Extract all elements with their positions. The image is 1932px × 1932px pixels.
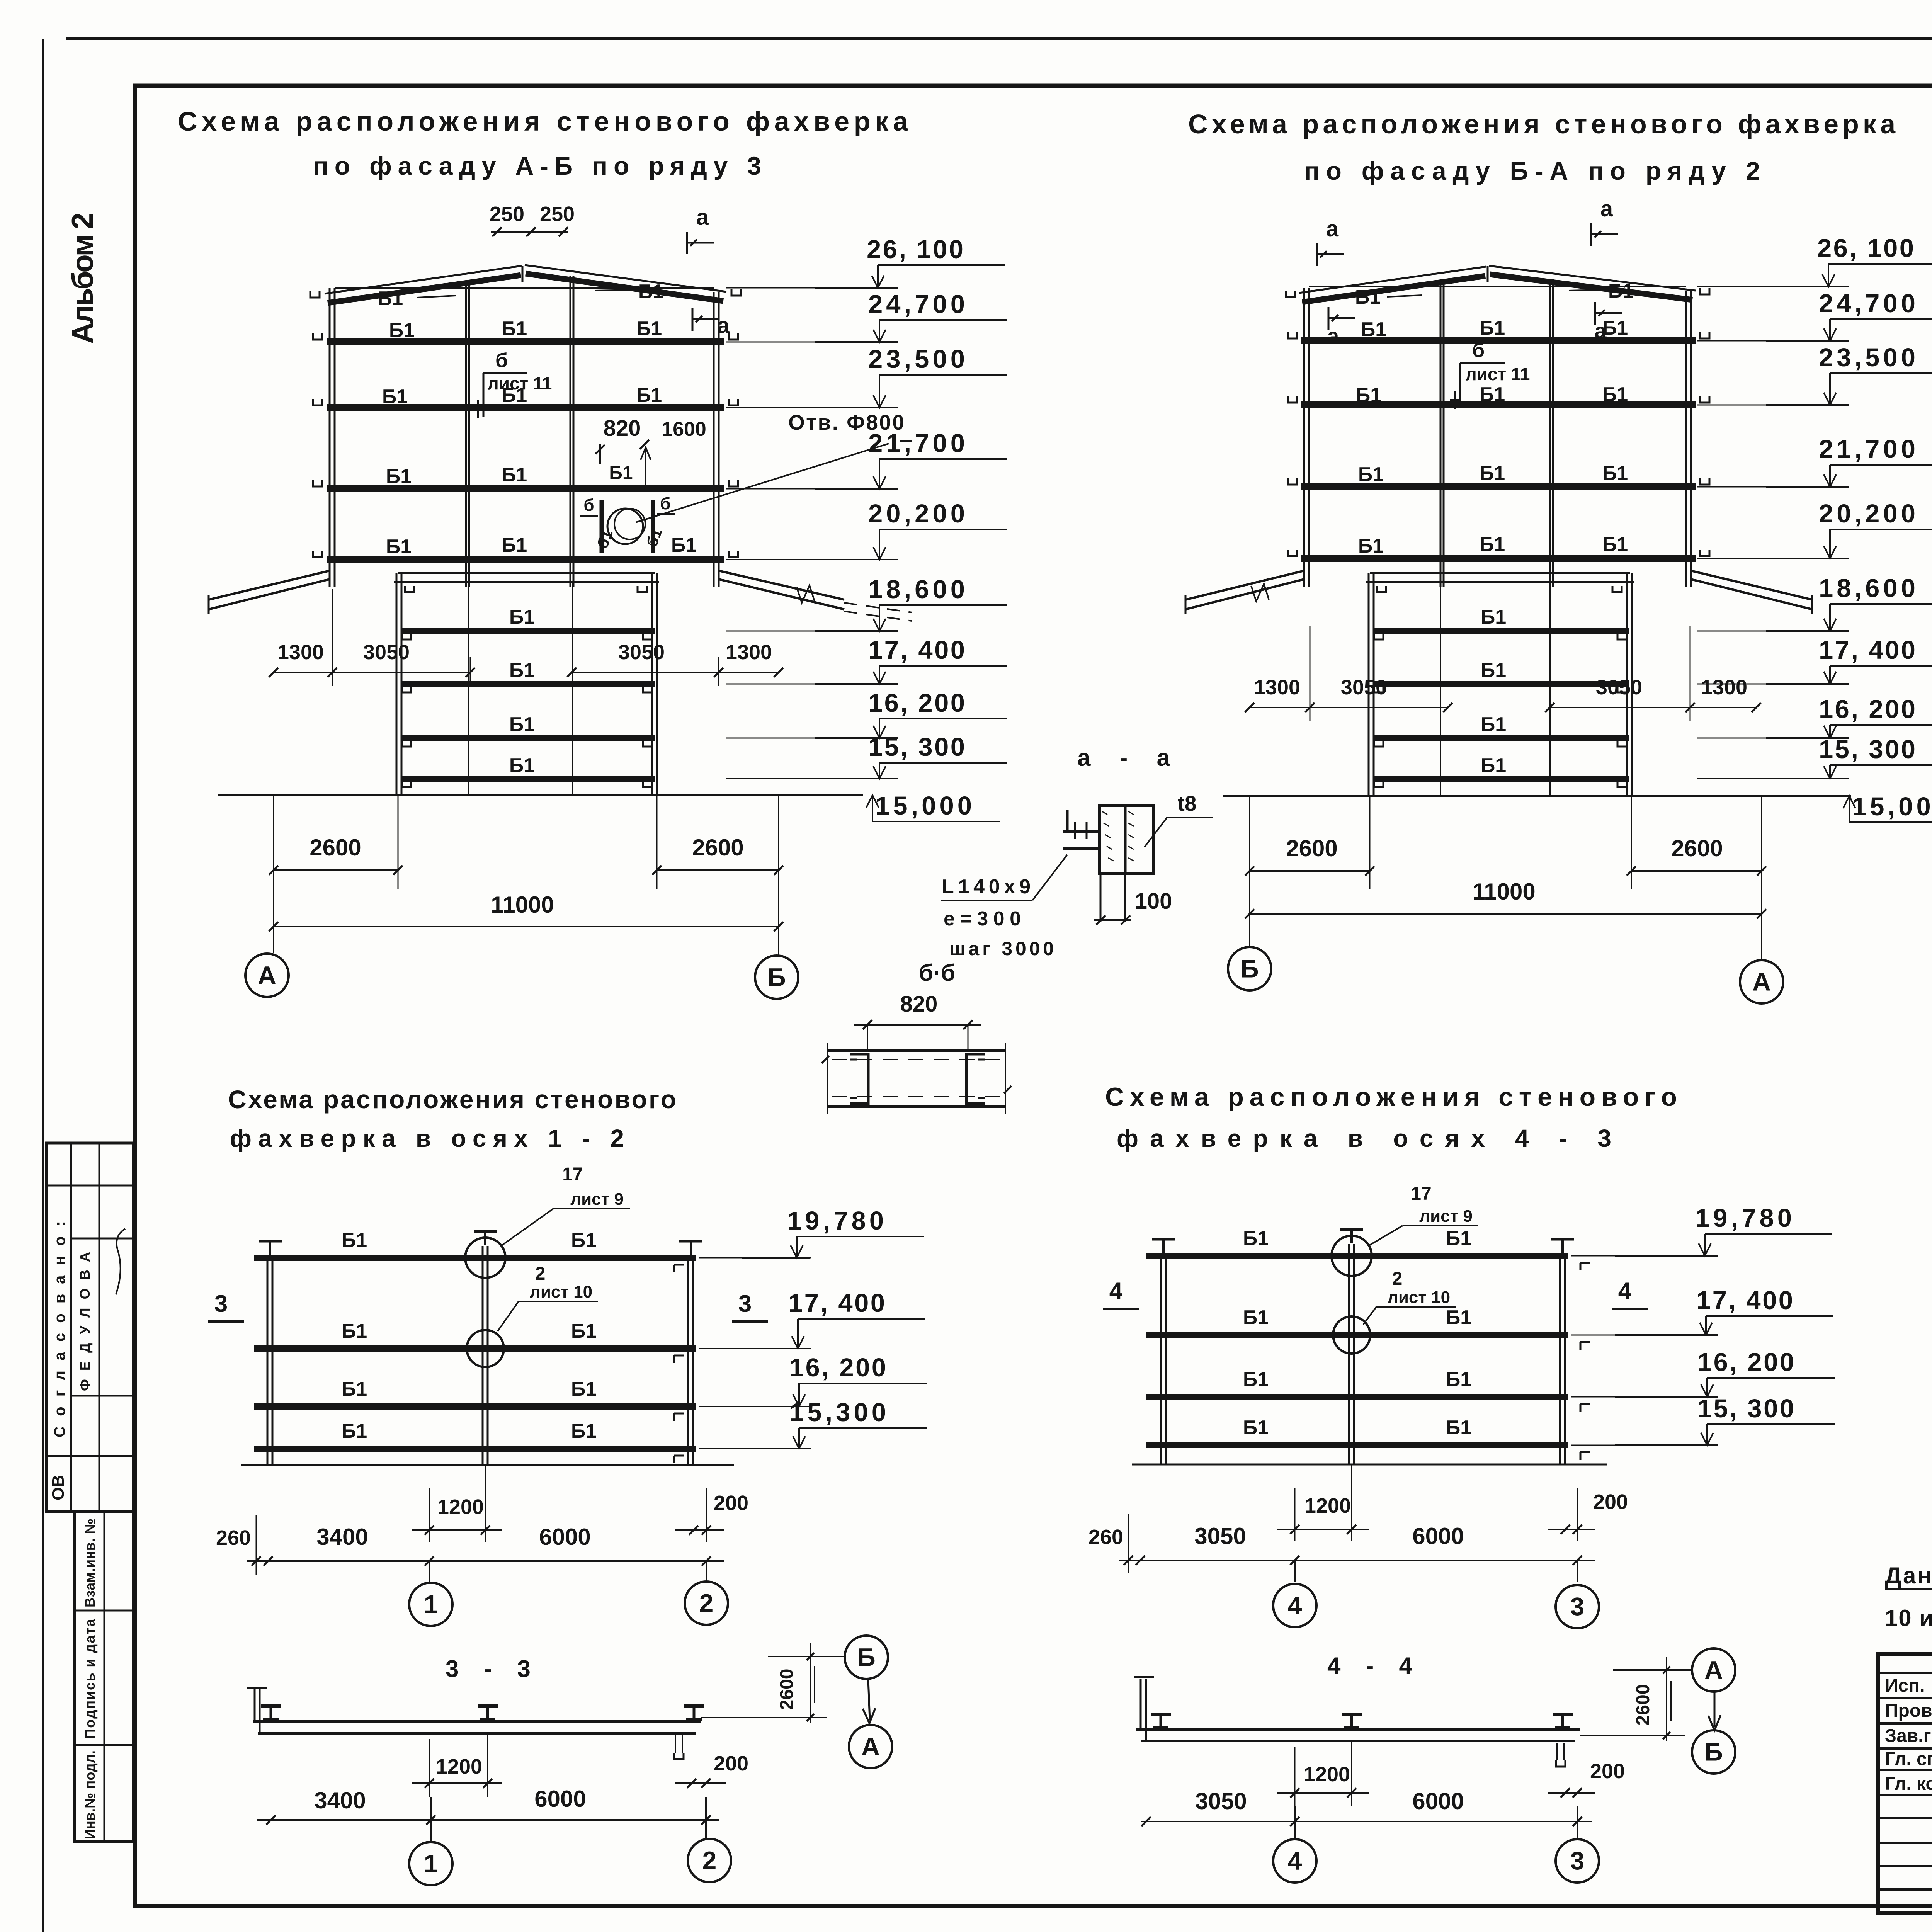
svg-text:Б1: Б1 <box>509 713 535 736</box>
svg-text:Б1: Б1 <box>509 606 535 628</box>
svg-text:4: 4 <box>1288 1846 1302 1875</box>
svg-text:6000: 6000 <box>1412 1523 1464 1549</box>
elevation2 silo right column <box>1626 573 1628 796</box>
svg-text:Б: Б <box>857 1643 875 1671</box>
svg-text:6000: 6000 <box>1412 1788 1464 1814</box>
svg-text:a: a <box>1595 319 1607 343</box>
schema 4-3 left column <box>1160 1254 1162 1464</box>
svg-text:Б1: Б1 <box>342 1378 367 1400</box>
schema 4-3 level extensions <box>1571 1255 1685 1257</box>
section 3-3 axis extensions <box>430 1797 432 1842</box>
schema 4-3 main dim line 260/3050/6000 <box>1119 1560 1595 1561</box>
schema 4-3 girt beam Б1 level 3615 <box>1146 1394 1568 1400</box>
svg-text:Б1: Б1 <box>609 463 633 483</box>
left skirt break mark (elevation2) <box>1251 584 1269 601</box>
right skirt break mark <box>797 585 815 603</box>
elevation2 silo beam Б1 level 1770 <box>1373 681 1629 687</box>
svg-text:15,000: 15,000 <box>1852 792 1932 821</box>
elevation2 level extension lines <box>1697 286 1839 287</box>
axis bubble 4 (section 4-4) <box>1273 1839 1316 1883</box>
silo column extension lines <box>398 795 399 889</box>
svg-text:260: 260 <box>1088 1526 1123 1549</box>
svg-text:Б1: Б1 <box>378 287 403 310</box>
orientation arrow Б to А (3-3) <box>868 1680 870 1720</box>
svg-text:3: 3 <box>214 1291 228 1317</box>
schema 4-3 right column <box>1559 1254 1561 1464</box>
svg-text:1200: 1200 <box>436 1755 482 1778</box>
svg-text:3 - 3: 3 - 3 <box>446 1656 531 1682</box>
svg-text:2600: 2600 <box>692 835 743 861</box>
silo column extension lines (elevation2) <box>1369 796 1371 889</box>
elevation1 girt beam Б1 level 1055 <box>327 404 724 411</box>
wall line to А marker (4-4) <box>1613 1669 1692 1671</box>
svg-text:Б1: Б1 <box>1243 1227 1269 1250</box>
elevation2 roof chords <box>1299 267 1486 293</box>
axis bubble 3 (section 4-4) <box>1556 1839 1599 1883</box>
svg-text:Б1: Б1 <box>1361 318 1386 341</box>
svg-text:3: 3 <box>738 1291 752 1317</box>
svg-text:1300: 1300 <box>277 641 324 664</box>
schema 1-2 girt beam Б1 level 3255 <box>254 1255 696 1261</box>
hole circle Ф800 <box>607 509 643 544</box>
schema 4-3 girt beam Б1 level 3740 <box>1146 1442 1568 1448</box>
callout circle 17/лист9 (schema 4-3) <box>1332 1236 1372 1276</box>
svg-text:3050: 3050 <box>1195 1788 1247 1814</box>
schema 4-3 bracket marks on right column <box>1580 1262 1590 1264</box>
svg-text:Б1: Б1 <box>571 1229 597 1252</box>
svg-text:200: 200 <box>1590 1760 1625 1783</box>
elevation2 silo centerline posts <box>1440 582 1441 796</box>
svg-text:Б1: Б1 <box>636 384 662 406</box>
elevation2 top tie line <box>1309 286 1686 287</box>
svg-text:Схема расположения стенового: Схема расположения стенового <box>228 1085 676 1114</box>
elevation2 left column <box>1303 288 1305 587</box>
elevation1 eave flare left skirt <box>209 571 330 600</box>
svg-text:Б1: Б1 <box>502 534 527 556</box>
svg-text:Б1: Б1 <box>571 1320 597 1342</box>
elevation1 girt beam Б1 level 1265 <box>327 485 724 492</box>
svg-text:260: 260 <box>216 1526 251 1549</box>
elevation1 girt beam Б1 level 885 <box>327 338 724 345</box>
svg-text:Б1: Б1 <box>389 319 415 342</box>
schema 1-2 girt beam Б1 level 3749 <box>254 1446 696 1452</box>
elevation2 silo left column <box>1368 573 1370 796</box>
svg-text:Зав.гр.: Зав.гр. <box>1885 1726 1932 1746</box>
svg-text:Исп.: Исп. <box>1885 1675 1925 1696</box>
callout circle 17/лист9 (schema 1-2) <box>465 1238 505 1278</box>
elevation1 beam end marks level 1448 <box>313 551 322 557</box>
axis bubble А (4-4 marker) <box>1692 1648 1735 1692</box>
section 3-3 beam <box>253 1720 701 1723</box>
hole side bars with б marks <box>600 500 604 553</box>
svg-text:3400: 3400 <box>316 1524 368 1550</box>
svg-text:лист 11: лист 11 <box>1465 364 1530 384</box>
elevation1 beam end marks level 1265 <box>313 480 322 486</box>
svg-text:t8: t8 <box>1178 791 1197 815</box>
svg-text:2600: 2600 <box>1633 1684 1653 1726</box>
elevation2 silo beam Б1 level 2015 <box>1373 776 1629 782</box>
dim 2600 vertical (3-3) <box>810 1643 811 1723</box>
svg-text:Б1: Б1 <box>1446 1417 1471 1439</box>
svg-text:Альбом 2: Альбом 2 <box>65 213 99 344</box>
svg-text:А: А <box>1752 967 1771 996</box>
svg-text:Б1: Б1 <box>1446 1306 1471 1329</box>
svg-text:1300: 1300 <box>1254 676 1300 699</box>
svg-text:Б1: Б1 <box>509 659 535 682</box>
svg-text:лист 10: лист 10 <box>530 1282 592 1301</box>
svg-text:Б1: Б1 <box>638 281 664 303</box>
section mark a (inner right, elevation1) <box>692 308 694 331</box>
elevation1 interior post left <box>465 284 467 587</box>
a-a hatch marks <box>1102 811 1107 815</box>
svg-text:4: 4 <box>1618 1278 1632 1304</box>
fachwerk dim row 1300/3050 (elevation1) <box>274 672 470 673</box>
outer sheet border <box>42 39 44 1932</box>
schema 1-2 ground line <box>241 1464 734 1466</box>
elevation1 interior post right <box>570 276 571 587</box>
axis bubble 2 (section 3-3) <box>688 1839 731 1882</box>
elevation2 interior posts <box>1440 282 1442 587</box>
svg-text:Взам.инв. №: Взам.инв. № <box>82 1519 98 1607</box>
elevation1 top tie line <box>335 287 714 289</box>
svg-text:Б: Б <box>1704 1737 1723 1766</box>
svg-text:Б1: Б1 <box>636 318 662 340</box>
schema 4-3 axis extensions <box>1294 1560 1296 1582</box>
svg-text:Б1: Б1 <box>1358 463 1384 486</box>
svg-text:Данный лист см. совместно с ли: Данный лист см. совместно с листами <box>1885 1563 1932 1588</box>
beam line extension (3-3) <box>701 1717 827 1718</box>
approval stamp table (Согласовано) <box>46 1143 133 1512</box>
dim row 2600 right (elevation1) <box>657 869 779 871</box>
elevation1 beam end marks level 885 <box>313 333 322 340</box>
svg-text:б·б: б·б <box>919 960 955 986</box>
ground line elevation1 <box>218 794 863 796</box>
elevation1 silo left column <box>396 573 398 795</box>
elevation1 silo right column <box>651 573 653 795</box>
svg-text:250: 250 <box>490 202 524 226</box>
svg-text:3050: 3050 <box>1194 1523 1246 1549</box>
svg-text:3: 3 <box>1570 1846 1585 1875</box>
elevation2 right column <box>1685 291 1687 587</box>
svg-text:Б1: Б1 <box>1243 1368 1269 1391</box>
elevation1 right column <box>713 292 715 587</box>
svg-text:Б: Б <box>767 963 786 991</box>
elevation2 silo beam Б1 level 1633 <box>1373 628 1629 634</box>
svg-text:Б1: Б1 <box>1243 1417 1269 1439</box>
signature squiggle <box>116 1229 125 1294</box>
svg-text:2: 2 <box>1392 1269 1403 1289</box>
svg-text:Б1: Б1 <box>509 754 535 777</box>
axis bubble Б (elevation1) <box>755 956 798 999</box>
svg-text:Инв.№ подл.: Инв.№ подл. <box>82 1750 98 1839</box>
svg-text:a: a <box>717 313 730 338</box>
svg-text:3050: 3050 <box>1341 676 1387 699</box>
elevation1 eave flare right skirt <box>719 571 844 600</box>
axis bubble 4 (schema 4-3) <box>1273 1584 1316 1627</box>
section 4-4 beam <box>1136 1728 1580 1731</box>
svg-text:Б1: Б1 <box>1481 713 1506 736</box>
axis A extension line (elevation1) <box>273 795 274 953</box>
svg-text:2600: 2600 <box>310 835 361 861</box>
elevation2 silo beam Б1 level 1910 <box>1373 735 1629 741</box>
б-б channel body <box>828 1049 1005 1052</box>
svg-text:б: б <box>660 494 670 513</box>
svg-text:А: А <box>1704 1655 1723 1684</box>
elevation1 silo beam Б1 level 1770 <box>401 681 655 687</box>
svg-text:Б1: Б1 <box>1356 384 1381 406</box>
elevation1 left column <box>329 288 331 587</box>
svg-text:Б1: Б1 <box>1355 286 1381 308</box>
svg-text:Б1: Б1 <box>1608 280 1634 302</box>
б-б right C-channel <box>966 1054 985 1104</box>
svg-text:6000: 6000 <box>539 1524 590 1550</box>
svg-text:б: б <box>583 496 594 515</box>
document stamp column (Взам.инв / Подпись / Инв.№) <box>75 1512 133 1842</box>
svg-text:Б1: Б1 <box>571 1420 597 1442</box>
elevation2 beam end marks level 882 <box>1288 332 1297 338</box>
elevation2 beam end marks level 1445 <box>1288 550 1297 556</box>
б-б left C-channel <box>850 1054 868 1104</box>
elevation1 silo beam Б1 level 1910 <box>401 735 655 741</box>
schema 1-2 axis extensions <box>429 1561 430 1582</box>
svg-text:Б1: Б1 <box>1602 383 1628 406</box>
svg-text:1200: 1200 <box>1304 1763 1350 1786</box>
svg-text:Б1: Б1 <box>1602 462 1628 485</box>
axis bubble А (elevation2) <box>1740 960 1783 1003</box>
a-a column box <box>1099 806 1154 873</box>
б-б end break marks <box>827 1043 828 1114</box>
svg-text:Б1: Б1 <box>1243 1306 1269 1329</box>
svg-text:Подпись и дата: Подпись и дата <box>82 1619 98 1739</box>
svg-text:2600: 2600 <box>777 1669 797 1710</box>
elevation1 beam end marks level 1055 <box>313 399 322 405</box>
schema 1-2 girt beam Б1 level 3490 <box>254 1345 696 1352</box>
elevation2 eave flare right skirt <box>1691 571 1812 600</box>
elevation1 silo beam Б1 level 1633 <box>401 628 655 634</box>
wall line to Б marker (3-3) <box>768 1656 844 1657</box>
svg-text:1200: 1200 <box>437 1495 484 1519</box>
svg-text:Гл. сп.: Гл. сп. <box>1885 1749 1932 1769</box>
schema 4-3 middle column <box>1348 1244 1350 1464</box>
section mark a (inner-right, elevation2) <box>1594 302 1596 325</box>
svg-text:А: А <box>258 961 276 989</box>
svg-text:4: 4 <box>1288 1591 1302 1619</box>
elevation2 silo top plate <box>1370 572 1630 574</box>
section 4-4 left upright <box>1140 1679 1142 1730</box>
elevation1 girt beam Б1 level 1448 <box>327 556 724 563</box>
svg-text:820: 820 <box>604 416 641 441</box>
svg-text:200: 200 <box>714 1752 748 1775</box>
axis bubble 1 (schema 1-2) <box>409 1583 452 1626</box>
elevation2 girt beam Б1 level 882 <box>1301 337 1696 344</box>
svg-text:Б1: Б1 <box>342 1320 367 1342</box>
svg-text:Б1: Б1 <box>342 1229 367 1252</box>
svg-text:Б1: Б1 <box>1602 533 1628 556</box>
svg-text:2600: 2600 <box>1286 835 1337 861</box>
elevation2 roof eave ticks <box>1286 291 1295 297</box>
svg-text:Б1: Б1 <box>1358 535 1384 557</box>
svg-text:200: 200 <box>1593 1490 1628 1514</box>
svg-text:11000: 11000 <box>491 892 554 918</box>
svg-text:2600: 2600 <box>1671 835 1723 861</box>
svg-text:3400: 3400 <box>314 1787 366 1813</box>
callout circle 2/лист10 (schema 1-2) <box>467 1330 504 1367</box>
section 3-3 column symbols <box>261 1704 281 1708</box>
svg-text:Б1: Б1 <box>342 1420 367 1442</box>
axis Б extension line (elevation2) <box>1249 796 1250 947</box>
section 4-4 column symbols <box>1151 1713 1171 1716</box>
svg-text:2: 2 <box>699 1588 714 1617</box>
fachwerk dim row 3050/1300 (elevation2) <box>1250 707 1448 708</box>
svg-text:лист 11: лист 11 <box>487 373 552 393</box>
svg-text:б: б <box>1472 339 1485 362</box>
svg-text:лист 9: лист 9 <box>1419 1207 1473 1226</box>
elevation1 roof chords <box>325 266 522 294</box>
svg-text:Б1: Б1 <box>502 464 527 486</box>
svg-text:200: 200 <box>714 1492 748 1515</box>
elevation1 level extension lines <box>726 287 896 289</box>
axis bubble Б (elevation2) <box>1228 947 1271 990</box>
svg-text:Б1: Б1 <box>1446 1368 1471 1391</box>
svg-text:3: 3 <box>1570 1592 1585 1621</box>
schema 1-2 level extensions <box>699 1257 811 1259</box>
svg-text:Б1: Б1 <box>671 534 697 556</box>
axis bubble А (3-3 marker) <box>849 1725 892 1768</box>
svg-text:Б1: Б1 <box>502 318 527 340</box>
elevation2 girt beam Б1 level 1260 <box>1301 483 1696 490</box>
svg-text:А: А <box>861 1732 880 1760</box>
elevation1 silo top plate <box>398 572 655 574</box>
svg-text:Б1: Б1 <box>1480 462 1505 485</box>
axis bubble Б (4-4 marker) <box>1692 1730 1735 1774</box>
svg-text:Б1: Б1 <box>1480 533 1505 556</box>
names table rows <box>1878 1672 1932 1674</box>
section 4-4 right lower ticks <box>1556 1743 1558 1760</box>
svg-text:11000: 11000 <box>1472 879 1536 905</box>
svg-text:Пров.: Пров. <box>1885 1701 1932 1721</box>
axis bubble 3 (schema 4-3) <box>1556 1585 1599 1628</box>
section mark a (inner-left, elevation2) <box>1328 307 1330 330</box>
axis bubble Б (3-3 marker) <box>845 1636 888 1679</box>
svg-text:4: 4 <box>1109 1278 1123 1304</box>
svg-text:10 и 11.: 10 и 11. <box>1885 1605 1932 1631</box>
svg-text:лист 10: лист 10 <box>1388 1288 1450 1307</box>
a-a angle bracket <box>1066 810 1069 831</box>
schema 1-2 middle column (axis 1 +1200) <box>482 1246 484 1465</box>
right skirt dashed continuation <box>844 603 912 612</box>
svg-text:ОВ: ОВ <box>49 1475 68 1500</box>
dim row 2600 right (elevation2) <box>1631 870 1762 872</box>
axis А extension line (elevation2) <box>1761 796 1762 961</box>
section 4-4 axis extensions <box>1294 1806 1296 1839</box>
svg-text:1300: 1300 <box>1701 676 1747 699</box>
section 3-3 dim line 3400/6000 <box>257 1819 719 1821</box>
svg-text:Б1: Б1 <box>386 465 412 488</box>
svg-text:б: б <box>495 349 508 372</box>
svg-text:Б1: Б1 <box>571 1378 597 1400</box>
elevation2 girt beam Б1 level 1048 <box>1301 401 1696 408</box>
svg-text:Б1: Б1 <box>382 386 408 408</box>
svg-text:820: 820 <box>900 992 938 1017</box>
axis bubble 1 (section 3-3) <box>409 1842 452 1885</box>
svg-text:2: 2 <box>702 1846 717 1874</box>
elevation2 beam end marks level 1048 <box>1288 396 1297 403</box>
elevation1 roof eave ticks <box>310 291 320 298</box>
svg-text:a: a <box>1326 216 1339 241</box>
title block outer box <box>1878 1654 1932 1913</box>
section 3-3 left upright <box>254 1689 256 1721</box>
axis Б extension line (elevation1) <box>778 795 779 955</box>
schema 4-3 girt beam Б1 level 3455 <box>1146 1332 1568 1338</box>
svg-text:3050: 3050 <box>1596 676 1642 699</box>
svg-text:1200: 1200 <box>1304 1494 1351 1517</box>
svg-text:4 - 4: 4 - 4 <box>1327 1653 1413 1679</box>
axis bubble А (elevation1) <box>245 954 289 997</box>
svg-text:17: 17 <box>1411 1184 1431 1204</box>
svg-text:17: 17 <box>562 1164 583 1185</box>
dim row 11000 (elevation2) <box>1250 913 1762 915</box>
svg-text:100: 100 <box>1135 889 1172 914</box>
a-a column below <box>1100 873 1102 922</box>
svg-text:Б1: Б1 <box>1481 659 1506 682</box>
svg-text:3050: 3050 <box>363 641 410 664</box>
svg-text:Б1: Б1 <box>1480 317 1505 339</box>
schema 1-2 girt beam Б1 level 3640 <box>254 1403 696 1410</box>
callout circle 2/лист10 (schema 4-3) <box>1333 1316 1370 1354</box>
svg-text:шаг 3000: шаг 3000 <box>949 938 1054 959</box>
svg-text:Б1: Б1 <box>1446 1227 1471 1250</box>
schema 1-2 left column <box>267 1256 269 1465</box>
schema 4-3 ground line <box>1132 1464 1607 1466</box>
elevation1 silo centerline posts <box>468 582 469 795</box>
schema 1-2 bracket marks on right column <box>674 1264 684 1266</box>
dim row 11000 (elevation1) <box>274 926 779 927</box>
svg-text:Б1: Б1 <box>1481 606 1506 628</box>
svg-text:Б: Б <box>1240 954 1259 983</box>
section 3-3 right lower ticks <box>675 1735 676 1753</box>
svg-text:Б1: Б1 <box>386 536 412 558</box>
svg-text:лист 9: лист 9 <box>570 1190 624 1209</box>
svg-text:1300: 1300 <box>726 641 772 664</box>
schema 4-3 girt beam Б1 level 3250 <box>1146 1253 1568 1259</box>
schema 1-2 right column (axis 2 -200) <box>687 1256 689 1465</box>
svg-text:1600: 1600 <box>662 418 706 440</box>
axis bubble 2 (schema 1-2) <box>685 1582 728 1625</box>
elevation2 girt beam Б1 level 1445 <box>1301 555 1696 562</box>
svg-text:a: a <box>696 205 709 230</box>
svg-text:1: 1 <box>424 1590 438 1618</box>
svg-text:Б1: Б1 <box>1480 383 1505 406</box>
elevation1 silo beam Б1 level 2015 <box>401 776 655 782</box>
svg-text:6000: 6000 <box>534 1786 586 1812</box>
svg-text:1: 1 <box>424 1849 438 1878</box>
section 4-4 dim line 3050/6000 <box>1141 1821 1592 1822</box>
svg-text:250: 250 <box>540 202 575 226</box>
svg-text:Гл. кон: Гл. кон <box>1885 1774 1932 1794</box>
dim row 2600 left (elevation2) <box>1250 870 1370 872</box>
ground line elevation2 <box>1223 795 1851 797</box>
svg-text:Б1: Б1 <box>1481 754 1506 777</box>
dim row 2600 left (elevation1) <box>274 869 398 871</box>
schema 1-2 main dim line 260/3400/6000 <box>247 1560 724 1562</box>
svg-text:a: a <box>1600 196 1613 221</box>
svg-text:3050: 3050 <box>618 641 665 664</box>
dim 2600 vertical (4-4) <box>1666 1657 1667 1741</box>
beam line extension (4-4) <box>1580 1735 1685 1736</box>
svg-text:2: 2 <box>535 1264 546 1284</box>
elevation2 eave flare left skirt <box>1185 571 1304 600</box>
orientation arrow А to Б (4-4) <box>1714 1692 1716 1727</box>
